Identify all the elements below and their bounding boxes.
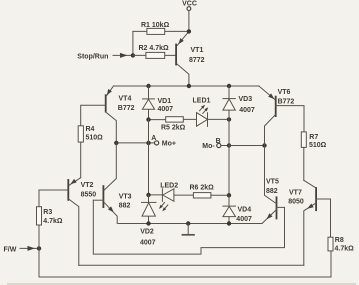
wire B column down — [228, 119, 230, 195]
diode VD4 4007 — [223, 195, 252, 223]
resistor R7 510 — [301, 132, 326, 149]
svg-text:Mo+: Mo+ — [162, 141, 176, 148]
diode VD3 4007 — [223, 86, 255, 119]
svg-text:Stop/Run: Stop/Run — [77, 53, 108, 60]
resistor R4 510 — [78, 126, 103, 142]
node A Mo+ — [114, 135, 176, 148]
transistor VT3 882 — [93, 143, 131, 224]
svg-text:VT3: VT3 — [119, 194, 132, 201]
svg-text:VD4: VD4 — [238, 206, 252, 213]
svg-text:VT5: VT5 — [266, 178, 279, 185]
scan edge bottom — [7, 283, 356, 284]
svg-text:F/W: F/W — [4, 246, 17, 253]
wire F/W bottom route to R8 — [39, 248, 331, 277]
wire R7 to VT7 collector — [303, 147, 305, 180]
svg-text:R8: R8 — [335, 237, 344, 244]
svg-text:8550: 8550 — [81, 191, 97, 198]
resistor R6 2k — [190, 184, 232, 198]
svg-text:4007: 4007 — [140, 240, 156, 247]
transistor VT7 8050 — [288, 180, 330, 265]
svg-text:8772: 8772 — [189, 57, 205, 64]
resistor R8 4.7k — [328, 237, 354, 252]
svg-text:B: B — [216, 138, 221, 145]
wire VCC stub — [188, 11, 190, 32]
svg-text:4007: 4007 — [158, 106, 174, 113]
svg-text:4007: 4007 — [239, 107, 255, 114]
svg-text:R6 2kΩ: R6 2kΩ — [190, 184, 215, 191]
svg-text:510Ω: 510Ω — [86, 135, 104, 142]
wire R4 to VT2 emitter — [80, 142, 82, 178]
svg-text:LED1: LED1 — [193, 97, 211, 104]
resistor R2 4.7k — [133, 45, 176, 59]
svg-text:R2 4.7kΩ: R2 4.7kΩ — [139, 45, 170, 52]
transistor VT5 882 — [262, 146, 285, 224]
svg-text:R5 2kΩ: R5 2kΩ — [161, 124, 186, 131]
svg-text:4.7kΩ: 4.7kΩ — [43, 218, 63, 225]
svg-text:VT7: VT7 — [289, 190, 302, 197]
LED LED1 — [193, 97, 232, 126]
resistor R1 10k — [133, 22, 189, 34]
svg-text:VT4: VT4 — [119, 96, 132, 103]
power terminal VCC — [182, 1, 197, 11]
wire A column down — [148, 120, 150, 195]
transistor VT6 B772 — [259, 86, 304, 146]
svg-text:Mo-: Mo- — [202, 143, 215, 150]
svg-text:B772: B772 — [118, 105, 135, 112]
wire ground rail — [118, 221, 262, 225]
svg-text:VT2: VT2 — [81, 182, 94, 189]
svg-text:4.7kΩ: 4.7kΩ — [335, 245, 355, 252]
wire VT2 collector to VT7 emitter — [79, 264, 304, 266]
svg-text:R7: R7 — [309, 134, 318, 141]
svg-text:B772: B772 — [278, 99, 295, 106]
node B Mo- — [202, 138, 231, 150]
wire VT5 base to VT3 base route — [93, 200, 284, 254]
svg-text:8050: 8050 — [288, 198, 304, 205]
svg-text:VT6: VT6 — [278, 89, 291, 96]
svg-text:VD1: VD1 — [158, 98, 172, 105]
svg-text:R4: R4 — [86, 126, 95, 133]
svg-text:R1 10kΩ: R1 10kΩ — [141, 22, 170, 29]
resistor R5 2k — [146, 117, 196, 132]
transistor VT4 B772 — [81, 86, 135, 143]
wire B to VT6 collector — [229, 143, 267, 147]
resistor R3 4.7k — [37, 207, 63, 226]
transistor VT2 8550 — [39, 178, 96, 266]
LED LED2 — [146, 183, 193, 212]
node F/W input — [4, 225, 42, 253]
svg-text:882: 882 — [266, 188, 278, 195]
node Stop/Run input — [77, 53, 135, 60]
transistor VT1 8772 — [176, 29, 205, 86]
ground — [182, 224, 195, 235]
wire R1-R2 vertical — [132, 31, 134, 55]
diode VD1 4007 — [142, 86, 173, 120]
diode VD2 4007 — [140, 195, 156, 247]
svg-text:VT1: VT1 — [191, 47, 204, 54]
svg-text:R3: R3 — [43, 209, 52, 216]
wire top bus — [114, 84, 259, 88]
svg-text:4007: 4007 — [236, 216, 252, 223]
svg-text:VD2: VD2 — [140, 229, 154, 236]
svg-text:A: A — [151, 135, 156, 142]
svg-text:882: 882 — [119, 202, 131, 209]
svg-text:VD3: VD3 — [239, 96, 253, 103]
svg-text:510Ω: 510Ω — [309, 142, 327, 149]
